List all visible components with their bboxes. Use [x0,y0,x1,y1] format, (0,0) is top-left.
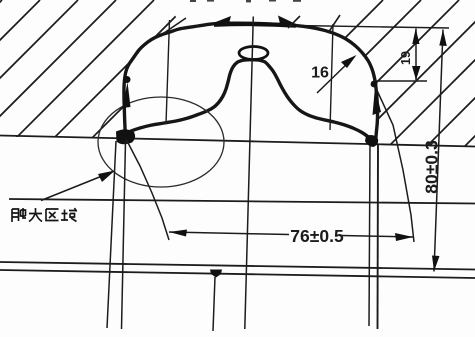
cut-off marks top edge [190,0,301,2]
fat region leader line [41,172,112,201]
19 dim up arrowhead [412,29,419,45]
crest left slash [164,18,186,33]
base line H3 [0,262,475,270]
right profile dot [371,81,378,88]
top reference line to right edge [296,26,449,29]
crest left arrowhead [212,16,231,24]
fat region leader arrowhead [98,171,115,183]
left up arrowhead on flank [123,82,131,108]
left profile dot [124,76,131,83]
80 dim up arrowhead [439,30,447,47]
76 dim line right segment [341,236,413,238]
inner wavy profile (bold) [121,60,374,143]
19 dim down arrowhead [412,66,421,80]
crest right slash [288,16,300,28]
outer dome profile (bold) [124,23,378,144]
down arrow blob on H4 [210,270,222,278]
reference line H2 [9,199,475,204]
right slanted extension line [375,86,414,242]
left slanted extension to 76 dim [126,139,169,240]
hatched mold region left [0,0,230,160]
extension line right x331 [330,24,333,130]
small ellipse at crown center [239,47,268,60]
right junction blob [365,135,378,147]
hatched mold region right [223,0,475,160]
extension line left x167 [166,20,170,124]
80 dim line [434,30,443,272]
big thin ellipse marking fat region [98,97,224,187]
right skirt line C [369,145,370,326]
19 dim shoulder line [374,80,427,82]
76 dim right arrowhead [395,233,413,241]
76 dim left arrowhead [169,230,187,237]
center line [245,17,254,330]
left skirt line B [122,141,126,329]
label 肥大区域 hand strokes [12,208,77,222]
parting line H1 [0,136,475,147]
vertical below down arrow [213,277,215,331]
left junction blob (fat spot) [116,129,135,144]
svg-text:76±0.5: 76±0.5 [290,226,344,246]
76 dim line left segment [169,232,289,235]
16 leader line [317,59,352,93]
16 leader arrowhead [341,55,357,68]
base line H4 [0,270,475,278]
crest right arrowhead [278,16,297,25]
19 dim line [415,29,417,81]
left skirt line A [107,141,116,328]
bold crest segment [214,24,296,26]
right up arrowhead [373,87,382,115]
right skirt line D [377,145,380,329]
oblique tick at right extension line [328,15,340,33]
svg-text:80±0.3: 80±0.3 [422,140,442,194]
svg-text:16: 16 [311,65,329,82]
80 dim down arrowhead [432,256,440,272]
svg-text:19: 19 [399,51,413,65]
